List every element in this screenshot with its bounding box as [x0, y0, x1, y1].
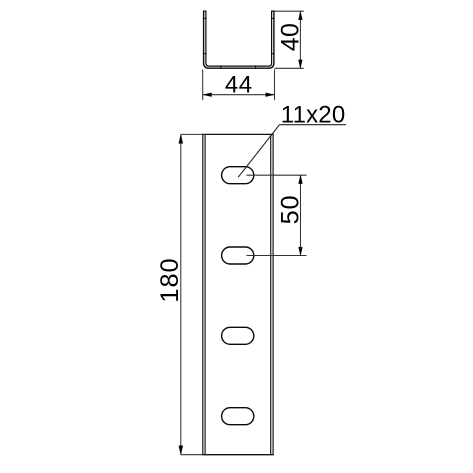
dimension 50 extension line bottom	[247, 255, 307, 257]
dimension 44 line	[203, 94, 275, 96]
bend tick right wall lower	[271, 53, 275, 55]
dimension 44 extension line left	[202, 70, 204, 101]
top view inner profile	[206, 11, 272, 66]
dimension 50 extension line top	[247, 174, 307, 176]
top view left wall top cap	[203, 10, 207, 12]
slot 3	[222, 327, 254, 344]
top view right wall top cap	[271, 10, 275, 12]
dimension 180 arrow down	[179, 446, 183, 455]
front view bottom edge	[202, 454, 274, 456]
label 11x20 leader line to slot 1	[238, 125, 279, 178]
dimension 44 extension line right	[274, 70, 276, 101]
dimension 44 arrow right	[266, 93, 274, 97]
front view right bend edge outer line	[272, 134, 274, 454]
bend tick left wall lower	[203, 53, 207, 55]
slot 4	[222, 408, 254, 425]
svg-text:44: 44	[225, 71, 253, 98]
front view left bend edge inner line	[204, 134, 206, 454]
dimension 50 arrow down	[299, 247, 303, 255]
svg-text:40: 40	[276, 23, 304, 51]
dimension 50 arrow up	[299, 175, 303, 183]
label 11x20 shelf line	[280, 124, 347, 126]
front view right bend edge inner line	[270, 134, 272, 454]
bend tick left wall upper	[203, 17, 207, 19]
bend tick bottom right	[255, 65, 257, 69]
dimension 40 extension line bottom	[275, 67, 304, 69]
dimension 40 arrow down	[299, 60, 303, 68]
slot 2	[222, 247, 254, 264]
dimension 180 extension line top	[181, 133, 203, 135]
dimension 180 extension line bottom	[181, 454, 203, 456]
dimension 40 line	[299, 11, 301, 68]
svg-text:50: 50	[276, 195, 304, 225]
slot 1 (11x20)	[222, 167, 254, 184]
dimension 180 arrow up	[179, 135, 183, 144]
dimension 40 arrow up	[299, 12, 303, 20]
dimension 50 line	[300, 175, 302, 255]
dimension 180 line	[180, 134, 182, 454]
dimension 44 arrow left	[203, 93, 211, 97]
bend tick bottom left	[220, 65, 222, 69]
bend tick right wall upper	[271, 17, 275, 19]
front view top edge	[202, 133, 274, 135]
front view left bend edge outer line	[202, 134, 204, 454]
svg-text:180: 180	[156, 257, 184, 302]
dimension 40 extension line top	[275, 10, 304, 12]
top view outer profile	[204, 11, 274, 68]
